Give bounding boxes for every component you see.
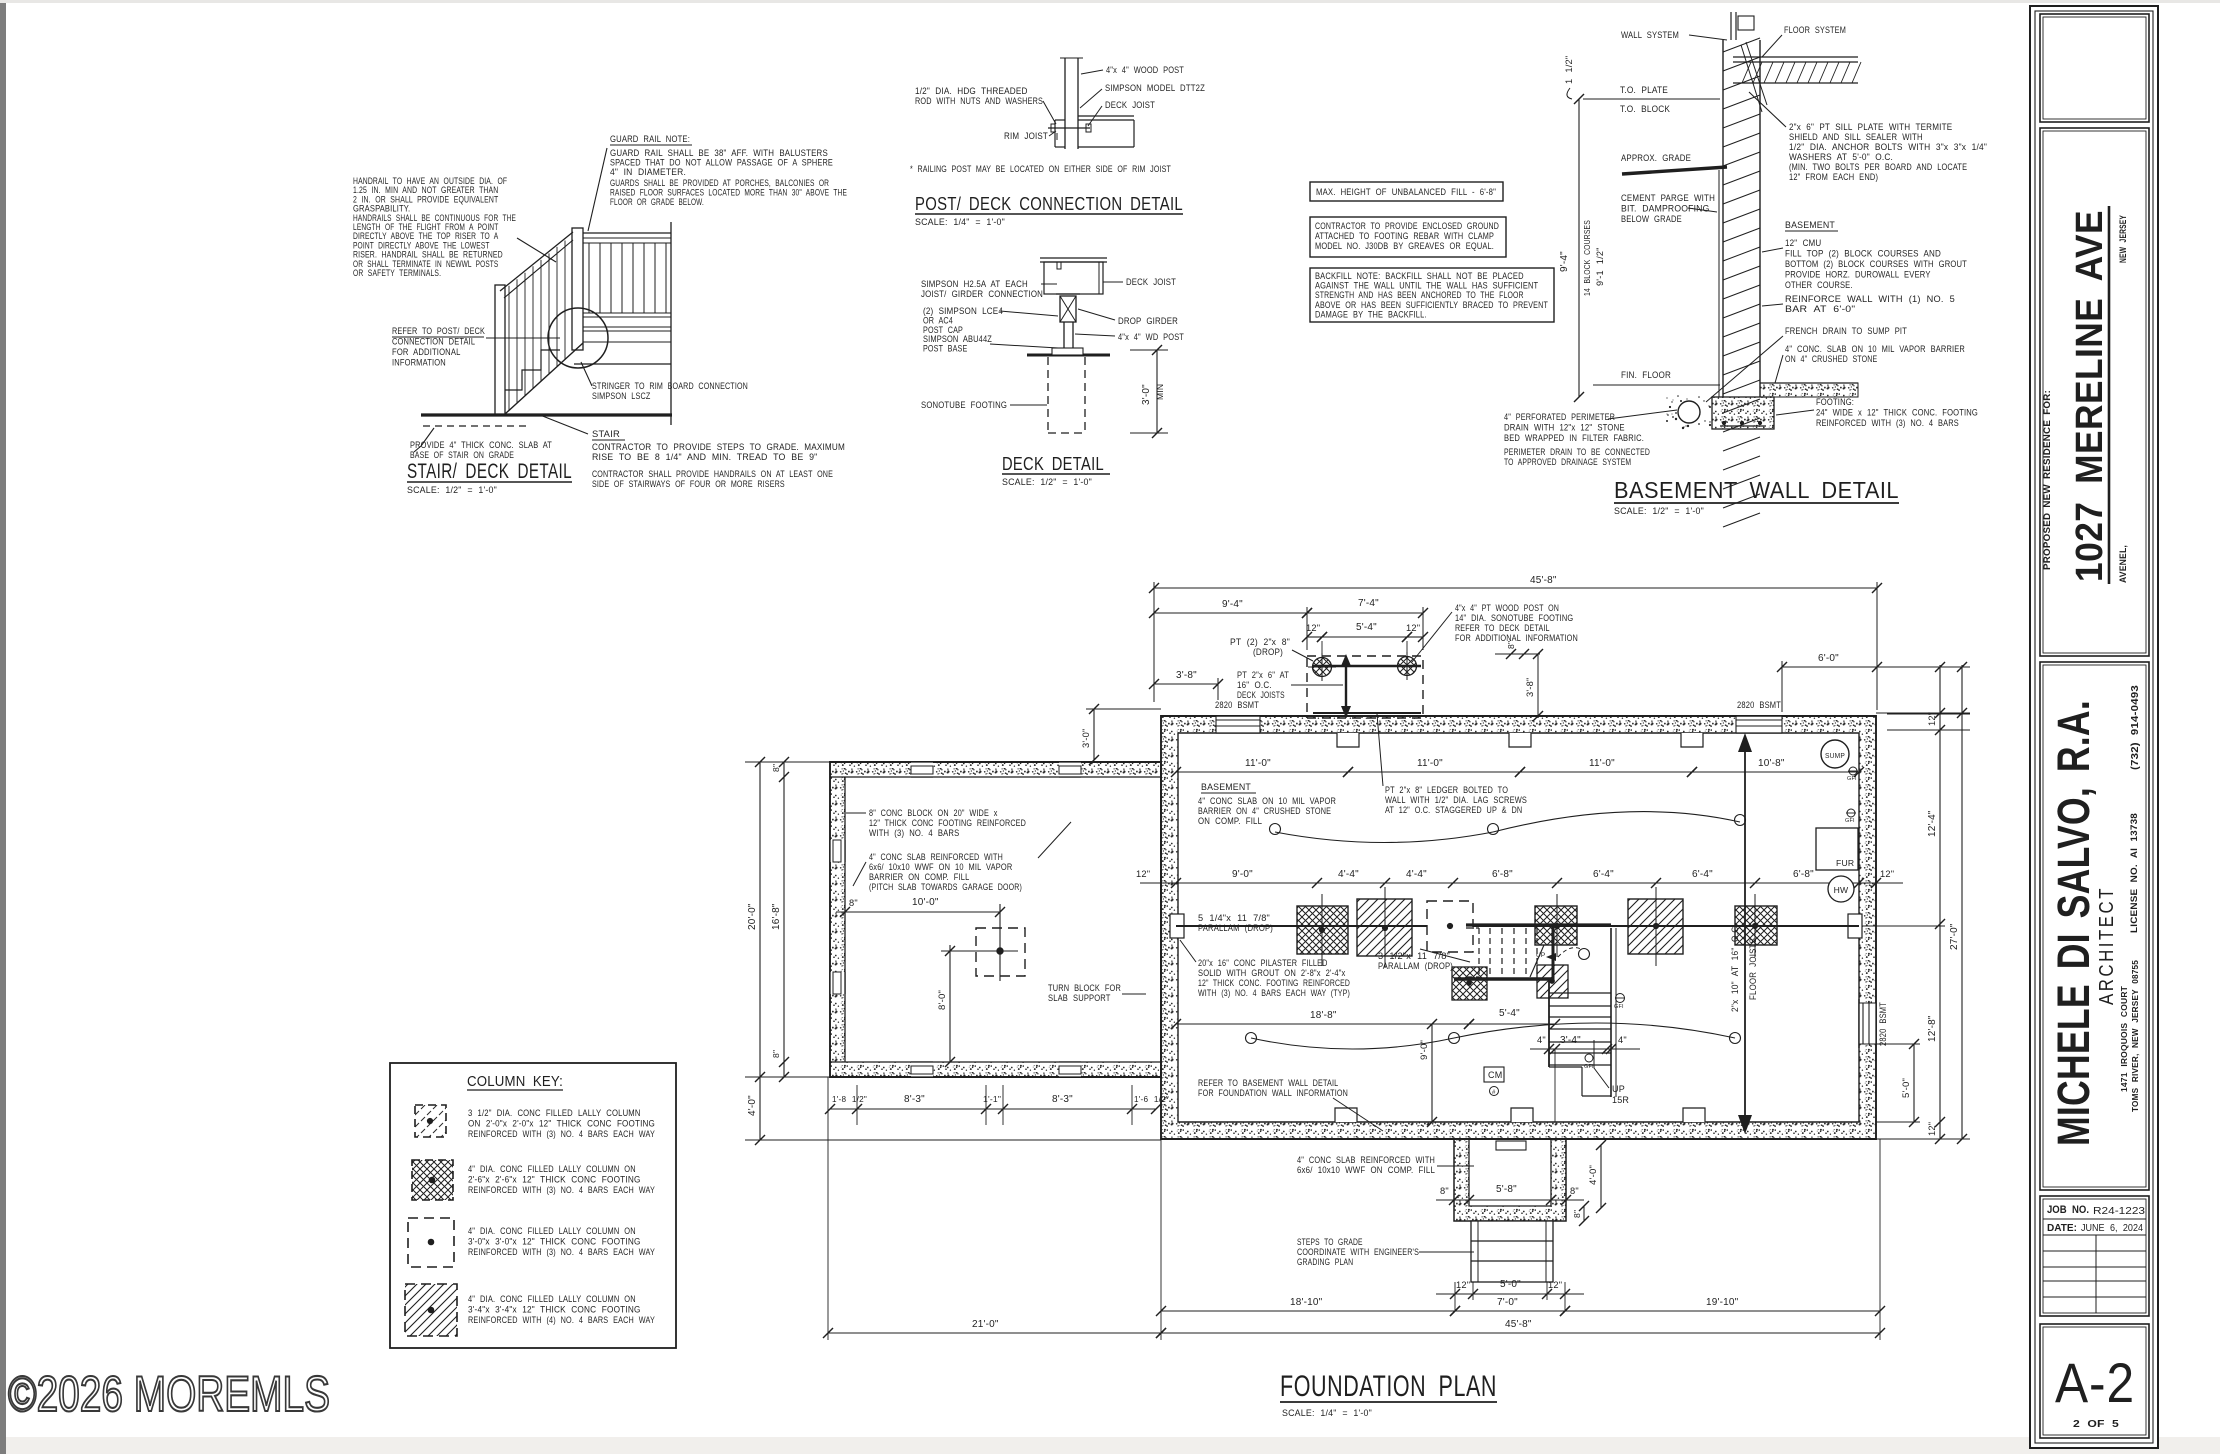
svg-text:5'-0": 5'-0" (1500, 1279, 1521, 1290)
svg-text:POST/ DECK CONNECTION DETAIL: POST/ DECK CONNECTION DETAIL (915, 193, 1183, 214)
stair landing below (1581, 1067, 1583, 1096)
svg-text:PROVIDE 4" THICK CONC. SLAB AT: PROVIDE 4" THICK CONC. SLAB AT (410, 440, 552, 450)
stoop dim 4-0 right (1600, 1145, 1602, 1208)
svg-text:ON 2'-0"x 2'-0"x 12" THICK CON: ON 2'-0"x 2'-0"x 12" THICK CONC FOOTING (468, 1119, 655, 1129)
key symbol 1: dashed light diag (415, 1105, 446, 1137)
basement foundation walls (1161, 716, 1876, 1139)
svg-text:LICENSE NO. AI 13738: LICENSE NO. AI 13738 (2128, 813, 2139, 933)
project box 1027 mereline (2040, 128, 2149, 656)
svg-text:(732) 914-0493: (732) 914-0493 (2130, 685, 2141, 770)
svg-text:12": 12" (1927, 1122, 1937, 1136)
deck double arrow (1345, 662, 1347, 710)
sheet box A-2 (2040, 1324, 2149, 1438)
note box: max height (1310, 182, 1503, 201)
joist tabs bottom wall (1335, 1108, 1357, 1122)
svg-text:11'-0": 11'-0" (1417, 758, 1443, 769)
svg-text:ROD WITH NUTS AND WASHERS: ROD WITH NUTS AND WASHERS (915, 96, 1043, 106)
svg-text:T.O. BLOCK: T.O. BLOCK (1620, 104, 1671, 114)
svg-text:SIMPSON LSCZ: SIMPSON LSCZ (592, 391, 651, 401)
svg-text:7'-0": 7'-0" (1497, 1297, 1518, 1308)
dim 9-4 / 7-4 (1154, 612, 1307, 614)
garage bottom dim row (830, 1108, 1156, 1110)
bottom extension lines (827, 1077, 829, 1340)
ledger line (1313, 712, 1421, 714)
footing rebar dots (1722, 421, 1725, 424)
svg-text:GFI: GFI (1614, 1004, 1624, 1010)
svg-text:12": 12" (1136, 869, 1150, 879)
svg-text:12" FROM EACH END): 12" FROM EACH END) (1789, 172, 1878, 182)
svg-text:BASEMENT: BASEMENT (1785, 219, 1835, 230)
svg-text:SOLID WITH GROUT ON 2'-8"x 2'-: SOLID WITH GROUT ON 2'-8"x 2'-4"x (1198, 968, 1346, 978)
svg-text:BAR AT 6'-0": BAR AT 6'-0" (1785, 304, 1855, 314)
svg-text:5 1/4"x 11 7/8": 5 1/4"x 11 7/8" (1198, 913, 1270, 923)
svg-text:1027 MERELINE AVE: 1027 MERELINE AVE (2069, 210, 2111, 582)
svg-text:(DROP): (DROP) (1253, 647, 1283, 657)
cmu wall hatch (1723, 38, 1760, 52)
svg-text:8": 8" (849, 898, 858, 908)
svg-text:20'-0": 20'-0" (747, 903, 758, 930)
svg-text:12" THICK CONC FOOTING REINFOR: 12" THICK CONC FOOTING REINFORCED (869, 818, 1026, 828)
svg-text:ABOVE OR HAS BEEN SUFFICIENTLY: ABOVE OR HAS BEEN SUFFICIENTLY BRACED TO… (1315, 300, 1548, 310)
garage window marks bottom wall (911, 1062, 933, 1077)
svg-text:8": 8" (771, 764, 781, 772)
rim joist left of post (1054, 120, 1056, 147)
svg-text:2"x 6" PT SILL PLATE WITH TERM: 2"x 6" PT SILL PLATE WITH TERMITE (1789, 122, 1952, 132)
svg-text:ATTACHED TO FOOTING REBAR WITH: ATTACHED TO FOOTING REBAR WITH CLAMP (1315, 231, 1494, 241)
svg-text:GFI: GFI (1845, 818, 1855, 824)
svg-text:JOIST/ GIRDER CONNECTION: JOIST/ GIRDER CONNECTION (921, 289, 1043, 299)
svg-text:REINFORCED WITH (3) NO. 4 BARS: REINFORCED WITH (3) NO. 4 BARS EACH WAY (468, 1247, 655, 1257)
column footing C3 dashed (1427, 901, 1473, 952)
svg-text:3'-0"x 3'-0"x 12" THICK CONC F: 3'-0"x 3'-0"x 12" THICK CONC FOOTING (468, 1237, 641, 1247)
svg-text:RIM JOIST: RIM JOIST (1004, 131, 1048, 141)
svg-text:JUNE 6, 2024: JUNE 6, 2024 (2081, 1223, 2143, 1234)
svg-text:WASHERS AT 5'-0" O.C.: WASHERS AT 5'-0" O.C. (1789, 152, 1893, 162)
deck post right (1398, 657, 1417, 676)
column footing C1 crosshatch (1297, 906, 1348, 954)
girder line (1176, 925, 1859, 927)
key symbol 4: diagonal hatch (405, 1284, 457, 1336)
svg-text:FOR ADDITIONAL: FOR ADDITIONAL (392, 347, 461, 357)
window 2820 bsmt top-left (1216, 716, 1260, 733)
svg-text:WALL SYSTEM: WALL SYSTEM (1621, 30, 1679, 40)
garage left dim 20-0 (759, 762, 761, 1077)
svg-text:6'-8": 6'-8" (1492, 869, 1513, 880)
svg-text:5'-8": 5'-8" (1496, 1184, 1517, 1195)
svg-text:ON COMP. FILL: ON COMP. FILL (1198, 816, 1262, 826)
svg-text:MIN: MIN (1155, 384, 1165, 400)
key symbol 2: crosshatch (412, 1160, 453, 1200)
svg-text:INFORMATION: INFORMATION (392, 358, 446, 368)
note box: backfill (1310, 268, 1554, 322)
dim 4/3-4/4 stairs (1530, 1048, 1640, 1050)
svg-text:2820 BSMT: 2820 BSMT (1878, 1002, 1888, 1046)
left height dim (1578, 99, 1580, 397)
svg-text:12": 12" (1456, 1280, 1470, 1290)
svg-text:FOUNDATION PLAN: FOUNDATION PLAN (1280, 1370, 1497, 1403)
svg-text:STAIR/ DECK DETAIL: STAIR/ DECK DETAIL (407, 459, 572, 483)
joist span arc top (1275, 832, 1493, 843)
garage dim 8-0 vert (949, 945, 951, 1062)
parallam drop lower thick (1454, 977, 1553, 980)
svg-text:FOOTING:: FOOTING: (1816, 397, 1854, 407)
sill anchor diagonals (1741, 45, 1762, 112)
dim row 18-10 / 7-0 / 19-10 (1161, 1310, 1455, 1312)
dim 6-0 top right (1782, 666, 1877, 668)
svg-text:4"x 4" WOOD POST: 4"x 4" WOOD POST (1106, 65, 1184, 75)
svg-text:6'-4": 6'-4" (1593, 869, 1614, 880)
svg-text:3'-8": 3'-8" (1176, 670, 1197, 681)
svg-text:PT 2"x 6" AT: PT 2"x 6" AT (1237, 670, 1289, 680)
joist tabs top wall (1337, 733, 1359, 747)
svg-text:4" DIA. CONC FILLED LALLY COLU: 4" DIA. CONC FILLED LALLY COLUMN ON (468, 1294, 636, 1304)
svg-text:PT (2) 2"x 8": PT (2) 2"x 8" (1230, 637, 1290, 647)
svg-text:AVENEL,: AVENEL, (2118, 545, 2129, 583)
svg-text:14" DIA. SONOTUBE FOOTING: 14" DIA. SONOTUBE FOOTING (1455, 613, 1573, 623)
leader refer-to-post line (486, 337, 560, 339)
svg-text:8": 8" (1572, 1210, 1582, 1218)
svg-text:SUMP: SUMP (1825, 751, 1845, 760)
svg-text:15R: 15R (1612, 1095, 1629, 1105)
garage column dashed (976, 928, 1025, 976)
dim 9-0 vert (1431, 1024, 1433, 1122)
deck joist box (1040, 257, 1107, 259)
svg-text:CEMENT PARGE WITH: CEMENT PARGE WITH (1621, 193, 1715, 203)
svg-text:4" PERFORATED PERIMETER: 4" PERFORATED PERIMETER (1504, 412, 1615, 422)
stair steps (505, 350, 560, 390)
svg-text:WITH (3) NO. 4 BARS EACH WAY (: WITH (3) NO. 4 BARS EACH WAY (TYP) (1198, 988, 1350, 998)
svg-text:24" WIDE x 12" THICK CONC. FOO: 24" WIDE x 12" THICK CONC. FOOTING (1816, 408, 1978, 418)
svg-text:2 OF 5: 2 OF 5 (2073, 1418, 2119, 1430)
stair left post (495, 285, 505, 414)
dim 12/5-4/12 (1307, 636, 1322, 638)
column footing C8 diagonal small (1537, 965, 1568, 998)
svg-text:FUR: FUR (1836, 858, 1854, 868)
window 2820 bsmt top-right (1736, 716, 1782, 733)
column footing C2 diagonal (1357, 899, 1412, 956)
svg-text:8": 8" (1440, 1186, 1449, 1196)
svg-text:AGAINST THE WALL UNTIL THE WAL: AGAINST THE WALL UNTIL THE WALL HAS SUFF… (1315, 281, 1539, 291)
svg-text:RISE TO BE 8 1/4" AND MIN. TRE: RISE TO BE 8 1/4" AND MIN. TREAD TO BE 9… (592, 452, 818, 462)
svg-text:8'-3": 8'-3" (1052, 1094, 1073, 1105)
right dim 27-0 (1961, 665, 1963, 1139)
svg-text:(MIN. TWO BOLTS PER BOARD AND: (MIN. TWO BOLTS PER BOARD AND LOCATE (1789, 162, 1967, 172)
svg-text:GRADING PLAN: GRADING PLAN (1297, 1257, 1353, 1267)
svg-text:REFER TO POST/ DECK: REFER TO POST/ DECK (392, 326, 486, 336)
svg-text:* RAILING POST MAY BE LOCATED: * RAILING POST MAY BE LOCATED ON EITHER … (910, 164, 1171, 174)
stair girder thick (1466, 923, 1611, 926)
cm box (1484, 1067, 1504, 1082)
svg-text:CM: CM (1488, 1070, 1502, 1080)
svg-text:UP: UP (1612, 1084, 1625, 1094)
svg-text:TO APPROVED DRAINAGE SYSTEM: TO APPROVED DRAINAGE SYSTEM (1504, 457, 1631, 467)
svg-text:2820 BSMT: 2820 BSMT (1737, 700, 1781, 710)
dim row 11-0 x3 + 10-8 (1176, 771, 1348, 773)
svg-text:45'-8": 45'-8" (1505, 1319, 1532, 1330)
svg-text:PARALLAM (DROP): PARALLAM (DROP) (1198, 923, 1273, 933)
svg-text:1471 IROQUOIS COURT: 1471 IROQUOIS COURT (2119, 985, 2129, 1092)
garage window marks left wall (830, 840, 845, 862)
svg-text:STAIR: STAIR (592, 428, 620, 439)
svg-text:REINFORCED WITH (4) NO. 4 BARS: REINFORCED WITH (4) NO. 4 BARS EACH WAY (468, 1315, 655, 1325)
svg-text:COLUMN KEY:: COLUMN KEY: (467, 1073, 563, 1090)
svg-text:DRAIN WITH 12"x 12" STONE: DRAIN WITH 12"x 12" STONE (1504, 423, 1625, 433)
svg-text:COORDINATE WITH ENGINEER'S: COORDINATE WITH ENGINEER'S (1297, 1247, 1419, 1257)
svg-text:8": 8" (1570, 1186, 1579, 1196)
svg-text:6x6/ 10x10 WWF ON 10 MIL VAPOR: 6x6/ 10x10 WWF ON 10 MIL VAPOR (869, 862, 1013, 872)
steps to grade (1471, 1221, 1553, 1282)
svg-text:4'-0": 4'-0" (1588, 1165, 1599, 1185)
leader stair (540, 415, 588, 434)
svg-text:A-2: A-2 (2055, 1351, 2135, 1414)
svg-text:5'-4": 5'-4" (1499, 1008, 1520, 1019)
wall system above (1730, 12, 1732, 40)
gfi at stairs (1616, 994, 1625, 1003)
svg-text:SIMPSON ABU44Z: SIMPSON ABU44Z (923, 334, 992, 344)
svg-text:1 1/2": 1 1/2" (1564, 56, 1574, 84)
svg-text:STRINGER TO RIM BOARD CONNECTI: STRINGER TO RIM BOARD CONNECTION (592, 381, 748, 391)
svg-text:4" CONC SLAB ON 10 MIL VAPOR: 4" CONC SLAB ON 10 MIL VAPOR (1198, 796, 1336, 806)
svg-text:14 BLOCK COURSES: 14 BLOCK COURSES (1582, 220, 1592, 296)
deck beam (1313, 665, 1421, 668)
scan edge left gray bar (0, 3, 6, 1454)
svg-text:HW: HW (1834, 885, 1849, 895)
rim joist band (583, 341, 671, 343)
deck joist right of post (1078, 115, 1134, 117)
svg-text:SCALE: 1/2" = 1'-0": SCALE: 1/2" = 1'-0" (1002, 477, 1092, 487)
svg-text:SCALE: 1/2" = 1'-0": SCALE: 1/2" = 1'-0" (407, 485, 497, 495)
newel post (572, 228, 583, 350)
svg-text:3 1/2" DIA. CONC FILLED LALLY: 3 1/2" DIA. CONC FILLED LALLY COLUMN (468, 1108, 641, 1118)
svg-text:3'-4"x 3'-4"x 12" THICK CONC F: 3'-4"x 3'-4"x 12" THICK CONC FOOTING (468, 1305, 641, 1315)
svg-text:1/2" DIA. ANCHOR BOLTS WITH 3": 1/2" DIA. ANCHOR BOLTS WITH 3"x 3"x 1/4" (1789, 142, 1987, 152)
svg-text:16'-8": 16'-8" (771, 903, 782, 930)
stoop dim 8/5-8/8 (1436, 1199, 1584, 1201)
svg-text:TURN BLOCK FOR: TURN BLOCK FOR (1048, 983, 1121, 993)
svg-text:3'-0": 3'-0" (1081, 728, 1091, 748)
revision box (top, empty) (2040, 14, 2149, 122)
svg-text:FRENCH DRAIN TO SUMP PIT: FRENCH DRAIN TO SUMP PIT (1785, 326, 1907, 336)
svg-text:BACKFILL NOTE: BACKFILL SHALL: BACKFILL NOTE: BACKFILL SHALL NOT BE PLA… (1315, 271, 1524, 281)
garage window marks top wall (911, 762, 933, 777)
svg-text:FOR ADDITIONAL INFORMATION: FOR ADDITIONAL INFORMATION (1455, 633, 1578, 643)
svg-text:DECK JOIST: DECK JOIST (1105, 100, 1155, 110)
joist span arc bottom (1251, 1038, 1454, 1049)
svg-text:(PITCH SLAB TOWARDS GARAGE DOO: (PITCH SLAB TOWARDS GARAGE DOOR) (869, 882, 1022, 892)
dim 3-0 min (1156, 350, 1158, 433)
svg-text:JOB NO.: JOB NO. (2047, 1204, 2089, 1216)
svg-text:NEW JERSEY: NEW JERSEY (2118, 215, 2128, 263)
footing (1712, 397, 1774, 429)
svg-text:12" CMU: 12" CMU (1785, 238, 1821, 248)
svg-text:9'-4": 9'-4" (1222, 599, 1243, 610)
svg-text:OTHER COURSE.: OTHER COURSE. (1785, 280, 1853, 290)
dim row 21-0 / 45-8 (828, 1332, 1161, 1334)
conc slab dashed line (423, 425, 528, 427)
garage foundation walls (830, 762, 1161, 1077)
svg-text:BASEMENT WALL DETAIL: BASEMENT WALL DETAIL (1614, 477, 1899, 503)
svg-text:T.O. PLATE: T.O. PLATE (1620, 85, 1668, 95)
column footing C4 crosshatch (1535, 906, 1577, 945)
stair treads lower run (1549, 992, 1611, 994)
svg-text:PERIMETER DRAIN TO BE CONNECTE: PERIMETER DRAIN TO BE CONNECTED (1504, 447, 1650, 457)
svg-text:REFER TO DECK DETAIL: REFER TO DECK DETAIL (1455, 623, 1550, 633)
svg-text:3'-0": 3'-0" (1141, 384, 1152, 405)
svg-text:12": 12" (1306, 623, 1320, 633)
dim 3-0 garage offset (1093, 709, 1095, 760)
leader from guard note to rail (588, 148, 607, 231)
svg-text:STEPS TO GRADE: STEPS TO GRADE (1297, 1237, 1363, 1247)
svg-text:4" DIA. CONC FILLED LALLY COLU: 4" DIA. CONC FILLED LALLY COLUMN ON (468, 1164, 636, 1174)
hw circle (1828, 876, 1854, 902)
svg-text:27'-0": 27'-0" (1949, 923, 1960, 950)
cmu wall verticals (1722, 40, 1724, 397)
right boundary line of deck (670, 222, 672, 425)
svg-text:12": 12" (1880, 869, 1894, 879)
svg-text:10'-8": 10'-8" (1758, 758, 1785, 769)
svg-text:2820 BSMT: 2820 BSMT (1215, 700, 1259, 710)
svg-text:20"x 16" CONC PILASTER FILLED: 20"x 16" CONC PILASTER FILLED (1198, 958, 1328, 968)
svg-text:7'-4": 7'-4" (1358, 598, 1379, 609)
svg-text:PT 2"x 8" LEDGER BOLTED TO: PT 2"x 8" LEDGER BOLTED TO (1385, 785, 1508, 795)
cement parge line (1718, 170, 1720, 397)
column footing C7 crosshatch small (1452, 967, 1487, 1000)
deck floor lines (583, 312, 671, 314)
svg-text:18'-10": 18'-10" (1290, 1297, 1323, 1308)
svg-text:BARRIER ON 4" CRUSHED STONE: BARRIER ON 4" CRUSHED STONE (1198, 806, 1331, 816)
svg-text:9'-1 1/2": 9'-1 1/2" (1595, 247, 1605, 286)
right dim col 1 (1939, 665, 1941, 1139)
svg-text:12'-4": 12'-4" (1927, 810, 1938, 837)
beam pocket left wall (1170, 914, 1184, 938)
threaded rod w/ nuts (1048, 127, 1090, 129)
svg-text:6x6/ 10x10 WWF ON COMP. FILL: 6x6/ 10x10 WWF ON COMP. FILL (1297, 1165, 1435, 1175)
handrail diagonal (500, 232, 573, 291)
svg-text:BASEMENT: BASEMENT (1201, 781, 1251, 792)
gfi right wall 1 (1849, 767, 1857, 775)
slab section right (1760, 382, 1858, 384)
revision grid (2095, 1235, 2097, 1313)
svg-text:1'-6 1/2": 1'-6 1/2" (1134, 1095, 1169, 1104)
svg-text:4'-0": 4'-0" (747, 1095, 758, 1116)
svg-text:©2026 MOREMLS: ©2026 MOREMLS (8, 1366, 330, 1422)
svg-text:REINFORCED WITH (3) NO. 4 BARS: REINFORCED WITH (3) NO. 4 BARS (1816, 418, 1959, 428)
stair upper run dashed treads (1478, 928, 1480, 977)
svg-text:REINFORCED WITH (3) NO. 4 BARS: REINFORCED WITH (3) NO. 4 BARS EACH WAY (468, 1129, 655, 1139)
leader simpson dtt2z (1080, 89, 1102, 108)
leader 4x4 wood post (1081, 70, 1103, 74)
drop girder with X (1060, 296, 1076, 322)
leader from handrail note to handrail (517, 238, 556, 262)
svg-text:CONTRACTOR TO PROVIDE ENCLOSED: CONTRACTOR TO PROVIDE ENCLOSED GROUND (1315, 221, 1499, 231)
svg-text:18'-8": 18'-8" (1310, 1010, 1337, 1021)
stair drawing: ground line (421, 413, 672, 416)
svg-text:SLAB SUPPORT: SLAB SUPPORT (1048, 993, 1111, 1003)
svg-text:R24-1223: R24-1223 (2093, 1205, 2145, 1217)
svg-text:19'-10": 19'-10" (1706, 1297, 1739, 1308)
title block outer border (2030, 6, 2158, 1448)
column footing C6 crosshatch (1735, 906, 1777, 945)
svg-text:CONNECTION DETAIL: CONNECTION DETAIL (392, 337, 475, 347)
svg-text:PARALLAM (DROP): PARALLAM (DROP) (1378, 961, 1453, 971)
stoop bottom dims 12/5-0/12 (1436, 1293, 1584, 1295)
svg-text:12" THICK CONC. FOOTING REINFO: 12" THICK CONC. FOOTING REINFORCED (1198, 978, 1350, 988)
stair stringer diagonal (505, 343, 583, 414)
svg-text:PROVIDE HORZ. DUROWALL EVERY: PROVIDE HORZ. DUROWALL EVERY (1785, 270, 1931, 280)
stoop dim 8 right (1583, 1206, 1585, 1221)
gfi right wall 2 (1847, 809, 1855, 817)
svg-text:FLOOR SYSTEM: FLOOR SYSTEM (1784, 25, 1846, 35)
stair break diagonal (1530, 945, 1544, 977)
svg-text:SIMPSON H2.5A AT EACH: SIMPSON H2.5A AT EACH (921, 279, 1028, 289)
right dim 5-0 (1913, 1044, 1915, 1122)
svg-text:1'-8 1/2": 1'-8 1/2" (832, 1095, 867, 1104)
svg-text:SHIELD AND SILL SEALER WITH: SHIELD AND SILL SEALER WITH (1789, 132, 1923, 142)
svg-text:12": 12" (1548, 1280, 1562, 1290)
svg-text:AT 12" O.C. STAGGERED UP & DN: AT 12" O.C. STAGGERED UP & DN (1385, 805, 1522, 815)
architect box (2040, 662, 2149, 1190)
floor joists double arrow (1744, 741, 1746, 1126)
svg-text:SCALE: 1/4" = 1'-0": SCALE: 1/4" = 1'-0" (915, 217, 1005, 227)
svg-text:FOR FOUNDATION WALL INFORMATIO: FOR FOUNDATION WALL INFORMATION (1198, 1088, 1348, 1098)
floor system joists (1733, 56, 1858, 58)
svg-text:DATE:: DATE: (2047, 1222, 2077, 1234)
provide slab leader (421, 428, 434, 446)
svg-text:(2) SIMPSON LCE4: (2) SIMPSON LCE4 (923, 306, 1003, 316)
sump (1821, 740, 1849, 768)
svg-text:CONTRACTOR TO PROVIDE STEPS TO: CONTRACTOR TO PROVIDE STEPS TO GRADE. MA… (592, 442, 845, 452)
leader deck joist (1088, 106, 1102, 126)
svg-text:BIT. DAMPROOFING: BIT. DAMPROOFING (1621, 204, 1710, 214)
svg-text:SCALE: 1/4" = 1'-0": SCALE: 1/4" = 1'-0" (1282, 1408, 1372, 1418)
key symbol 3: dashed open (408, 1218, 454, 1267)
column footing C5 diagonal (1628, 899, 1683, 954)
svg-text:APPROX. GRADE: APPROX. GRADE (1621, 153, 1691, 163)
svg-text:8": 8" (771, 1050, 781, 1058)
svg-text:9'-0": 9'-0" (1232, 869, 1253, 880)
sonotube dashed (1047, 357, 1049, 433)
svg-text:REFER TO BASEMENT WALL DETAIL: REFER TO BASEMENT WALL DETAIL (1198, 1078, 1338, 1088)
beam pocket right wall (1848, 914, 1862, 938)
svg-text:TOMS RIVER, NEW JERSEY 08755: TOMS RIVER, NEW JERSEY 08755 (2130, 960, 2140, 1112)
note box: contractor ground (1310, 217, 1506, 257)
svg-text:4": 4" (1618, 1035, 1627, 1045)
dim 18-8 / 5-4 (1176, 1023, 1469, 1025)
svg-text:16" O.C.: 16" O.C. (1237, 680, 1272, 690)
svg-text:PROPOSED NEW RESIDENCE FOR:: PROPOSED NEW RESIDENCE FOR: (2042, 390, 2052, 570)
svg-text:8" CONC BLOCK ON 20" WIDE x: 8" CONC BLOCK ON 20" WIDE x (869, 808, 998, 818)
leader stringer note (581, 362, 592, 386)
svg-text:5'-0": 5'-0" (1901, 1078, 1912, 1098)
svg-text:5'-4": 5'-4" (1356, 622, 1377, 633)
svg-text:UP: UP (1536, 952, 1545, 959)
svg-text:6'-8": 6'-8" (1793, 869, 1814, 880)
dim 8 small (1495, 653, 1540, 655)
svg-text:SONOTUBE FOOTING: SONOTUBE FOOTING (921, 400, 1007, 410)
svg-text:DECK JOISTS: DECK JOISTS (1237, 690, 1285, 700)
svg-text:REINFORCED WITH (3) NO. 4 BARS: REINFORCED WITH (3) NO. 4 BARS EACH WAY (468, 1185, 655, 1195)
svg-text:SCALE: 1/2" = 1'-0": SCALE: 1/2" = 1'-0" (1614, 506, 1704, 516)
svg-text:DROP GIRDER: DROP GIRDER (1118, 316, 1178, 326)
deck balusters (588, 243, 590, 313)
svg-text:4"x 4" WD POST: 4"x 4" WD POST (1118, 332, 1184, 342)
stoop walls (1454, 1139, 1566, 1221)
svg-text:21'-0": 21'-0" (972, 1319, 999, 1330)
svg-text:POST BASE: POST BASE (923, 344, 967, 354)
scan edge top (0, 0, 2220, 3)
drain circle + stone bed (1678, 401, 1700, 423)
svg-text:BELOW GRADE: BELOW GRADE (1621, 214, 1682, 224)
